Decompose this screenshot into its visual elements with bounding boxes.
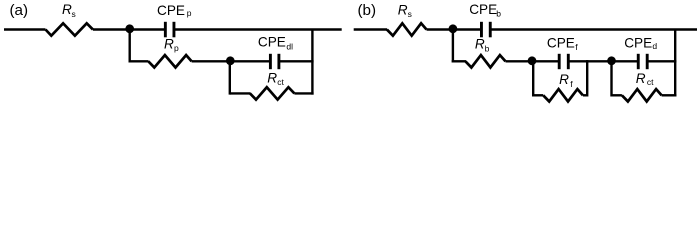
node B (a)	[226, 56, 235, 65]
wire: node C to CPEd (b)	[612, 60, 638, 62]
wire: Rp to node B (a)	[192, 60, 231, 62]
svg-text:CPE: CPE	[469, 2, 497, 17]
label Rf (b)	[559, 72, 573, 89]
wire: right vertical row3 to row1 (a)	[311, 30, 313, 95]
wire: (b) left lead	[354, 28, 387, 30]
label Rs (b)	[398, 2, 412, 19]
wire: row3 lead to Rct (a)	[230, 92, 251, 94]
svg-text:R: R	[398, 2, 408, 17]
wire: right vertical row3 to row1 (b)	[674, 30, 676, 97]
label Rs (a)	[62, 2, 76, 19]
svg-text:ct: ct	[277, 77, 284, 87]
svg-text:CPE: CPE	[624, 35, 652, 50]
wire: CPEd to right vertical (b)	[648, 60, 676, 62]
capacitor CPEf (b)	[559, 54, 568, 69]
label CPEp (a)	[157, 3, 192, 18]
svg-text:dl: dl	[286, 42, 293, 52]
wire: node C down to row3 (b)	[610, 61, 612, 97]
svg-text:f: f	[575, 42, 578, 52]
wire: node B to CPEdl (a)	[230, 60, 269, 62]
svg-text:b: b	[485, 44, 490, 54]
svg-text:CPE: CPE	[547, 36, 575, 51]
wire: Rs to node A (a)	[93, 28, 130, 30]
capacitor CPEb (b)	[481, 22, 490, 38]
svg-text:d: d	[652, 41, 657, 51]
wire: node B to CPEf (b)	[532, 60, 559, 62]
svg-text:CPE: CPE	[258, 35, 286, 50]
svg-text:s: s	[72, 9, 76, 19]
wire: row3 lead to Rct (b)	[612, 94, 622, 96]
resistor Rs (b)	[387, 23, 427, 35]
resistor Rct (a)	[250, 87, 294, 99]
resistor Rb (b)	[465, 55, 505, 67]
wire: row2 lead to Rp (a)	[129, 60, 149, 62]
wire: row2 lead to Rb (b)	[452, 60, 466, 62]
svg-text:s: s	[408, 9, 412, 19]
capacitor CPEdl (a)	[270, 54, 279, 69]
svg-text:(a): (a)	[10, 2, 29, 19]
svg-text:CPE: CPE	[157, 3, 185, 18]
wire: Rs to node A (b)	[427, 28, 453, 30]
wire: CPEf to node C (b)	[569, 60, 611, 62]
node C (b)	[607, 56, 616, 65]
label Rct (b)	[636, 71, 654, 87]
label CPEd (b)	[624, 35, 657, 51]
resistor Rs (a)	[46, 23, 93, 35]
wire: row3 lead to Rf (b)	[533, 94, 543, 96]
capacitor CPEp (a)	[165, 22, 174, 38]
wire: Rct to right vertical (a)	[294, 92, 313, 94]
svg-text:(b): (b)	[358, 2, 377, 19]
wire: node A to CPEp (a)	[130, 28, 165, 30]
resistor Rct (b)	[622, 89, 662, 101]
label CPEb (b)	[469, 2, 501, 19]
wire: node A to CPEb (b)	[453, 28, 481, 30]
label CPEdl (a)	[258, 35, 293, 52]
wire: Rb to node B (b)	[506, 60, 533, 62]
wire: (a) left lead	[4, 28, 46, 30]
node A (b)	[449, 24, 458, 33]
capacitor CPEd (b)	[638, 54, 647, 69]
svg-text:f: f	[570, 79, 573, 89]
wire: node B down to row3 (a)	[229, 61, 231, 95]
node B (b)	[528, 56, 537, 65]
svg-text:p: p	[174, 43, 179, 53]
svg-text:R: R	[62, 2, 72, 17]
resistor Rp (a)	[148, 55, 191, 67]
svg-text:R: R	[636, 71, 646, 86]
svg-text:R: R	[267, 71, 277, 86]
svg-text:R: R	[164, 36, 174, 51]
wire: CPEp to right terminal (a)	[175, 28, 342, 30]
wire: CPEb to right terminal (b)	[491, 28, 697, 30]
wire: node A down to row2 (a)	[128, 30, 130, 63]
resistor Rf (b)	[543, 89, 583, 101]
wire: node A down to row2 (b)	[452, 30, 454, 63]
node A (a)	[125, 24, 134, 33]
svg-text:ct: ct	[647, 77, 654, 87]
label CPEf (b)	[547, 36, 578, 52]
label Rct (a)	[267, 71, 284, 88]
label Rb (b)	[475, 36, 490, 53]
label Rp (a)	[164, 36, 179, 53]
label (b)	[358, 2, 377, 19]
wire: Rf loop right vertical row3 to row2 (b)	[583, 60, 587, 96]
wire: CPEdl to right vertical (a)	[280, 60, 314, 62]
svg-text:R: R	[559, 72, 569, 87]
wire: Rct to right vertical (b)	[662, 94, 677, 96]
label (a)	[10, 2, 29, 19]
wire: node B down to row3 (b)	[532, 61, 534, 97]
svg-text:b: b	[496, 9, 501, 19]
svg-text:R: R	[475, 36, 485, 51]
svg-text:p: p	[187, 8, 192, 18]
